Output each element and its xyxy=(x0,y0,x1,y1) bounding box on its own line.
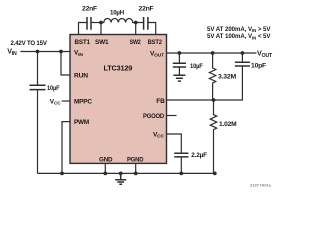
node junction dot PGND lead xyxy=(134,172,138,176)
wire ground rail xyxy=(38,172,215,174)
wire GND pin lead xyxy=(104,163,106,173)
svg-text:22nF: 22nF xyxy=(139,5,154,12)
svg-text:SW2: SW2 xyxy=(130,39,141,46)
svg-text:VIN: VIN xyxy=(7,46,17,57)
svg-text:PGND: PGND xyxy=(127,157,144,164)
svg-text:10µF: 10µF xyxy=(190,63,203,70)
wire C6 down to ground rail xyxy=(180,157,182,174)
op-amp U1 LTC3129 IC body xyxy=(70,35,167,164)
node junction dot at C4 branch xyxy=(178,51,182,55)
wire RUN branch from VIN node xyxy=(61,52,70,76)
node SW2 junction dot xyxy=(134,21,138,25)
wire C5 bottom to FB node xyxy=(214,66,243,100)
wire SW2 lead xyxy=(135,23,137,35)
svg-text:GND: GND xyxy=(99,157,113,164)
svg-text:5V AT 200mA, VIN > 5V: 5V AT 200mA, VIN > 5V xyxy=(207,26,271,33)
capacitor C1 22nF plates xyxy=(87,17,91,30)
svg-text:FB: FB xyxy=(156,98,165,105)
wire C4 to ground symbol xyxy=(178,67,180,75)
wire VIN input to pin VIN xyxy=(20,51,70,53)
node junction dot PWM at ground rail xyxy=(60,172,64,176)
svg-text:LTC3129: LTC3129 xyxy=(104,63,133,72)
wire PGND pin lead xyxy=(135,163,137,173)
node VIN junction dot at RUN branch xyxy=(59,50,63,54)
wire PWM pin down to ground rail xyxy=(62,122,70,174)
node junction dot at ground symbol xyxy=(119,172,123,176)
wire PGOOD stub xyxy=(167,115,177,117)
svg-text:10µF: 10µF xyxy=(47,85,60,92)
resistor R2 1.02M xyxy=(210,100,216,173)
svg-text:SW1: SW1 xyxy=(95,39,109,46)
ground symbol below GND/PGND xyxy=(115,173,126,184)
svg-text:3129 TA01a: 3129 TA01a xyxy=(250,183,272,188)
node SW1 junction dot xyxy=(99,21,103,25)
wire VIN node down to capacitor C3 xyxy=(37,52,39,86)
svg-text:3.32M: 3.32M xyxy=(218,73,236,80)
svg-text:VCC: VCC xyxy=(50,98,62,106)
node junction dot at C5 branch xyxy=(241,51,245,55)
wire VOUT node down to capacitor C4 xyxy=(178,53,180,63)
wire C1 to SW1 node xyxy=(91,22,101,24)
node junction dot C6 at ground rail xyxy=(179,172,183,176)
wire VCC to pin MPPC xyxy=(62,100,70,102)
svg-text:PGOOD: PGOOD xyxy=(143,113,164,120)
wire BST1 lead to capacitor C1 xyxy=(79,23,88,35)
wire FB pin to divider node xyxy=(167,99,214,101)
wire SW1 lead xyxy=(100,23,102,35)
svg-text:BST1: BST1 xyxy=(75,39,91,46)
svg-text:2.42V TO 15V: 2.42V TO 15V xyxy=(11,40,48,47)
capacitor C4 10uF plates xyxy=(173,63,186,67)
svg-text:1.02M: 1.02M xyxy=(219,121,237,128)
capacitor C3 10uF plates xyxy=(30,85,46,89)
node junction dot at R1 branch xyxy=(211,51,215,55)
wire VCC pin to capacitor C6 xyxy=(167,134,182,153)
resistor R1 3.32M xyxy=(209,53,215,100)
svg-text:5V AT 100mA, VIN < 5V: 5V AT 100mA, VIN < 5V xyxy=(207,33,271,40)
svg-text:10µH: 10µH xyxy=(110,10,124,17)
wire C2 to BST2 lead xyxy=(148,23,156,35)
svg-text:2.2µF: 2.2µF xyxy=(191,152,207,159)
node junction dot R2 at ground rail xyxy=(213,172,217,176)
capacitor C5 10pF plates xyxy=(235,62,250,66)
ground symbol below C4 xyxy=(173,75,185,81)
wire SW2 node to capacitor C2 xyxy=(136,22,144,24)
node FB junction dot xyxy=(212,98,216,102)
svg-text:BST2: BST2 xyxy=(148,39,163,46)
svg-text:PWM: PWM xyxy=(74,119,89,126)
wire C3 down to ground rail xyxy=(37,90,39,174)
wire VOUT pin to output xyxy=(167,52,257,54)
capacitor C6 2.2uF plates xyxy=(174,153,188,157)
inductor L1 10uH xyxy=(101,18,136,22)
node VIN junction dot at C3 branch xyxy=(36,50,40,54)
capacitor C2 22nF plates xyxy=(144,17,148,30)
node junction dot GND lead xyxy=(103,172,107,176)
wire C5 branch down from VOUT xyxy=(241,53,243,62)
svg-text:VOUT: VOUT xyxy=(257,49,273,60)
svg-text:22nF: 22nF xyxy=(82,5,97,12)
svg-text:10pF: 10pF xyxy=(251,63,266,70)
svg-text:RUN: RUN xyxy=(74,73,88,80)
svg-text:MPPC: MPPC xyxy=(74,98,92,105)
